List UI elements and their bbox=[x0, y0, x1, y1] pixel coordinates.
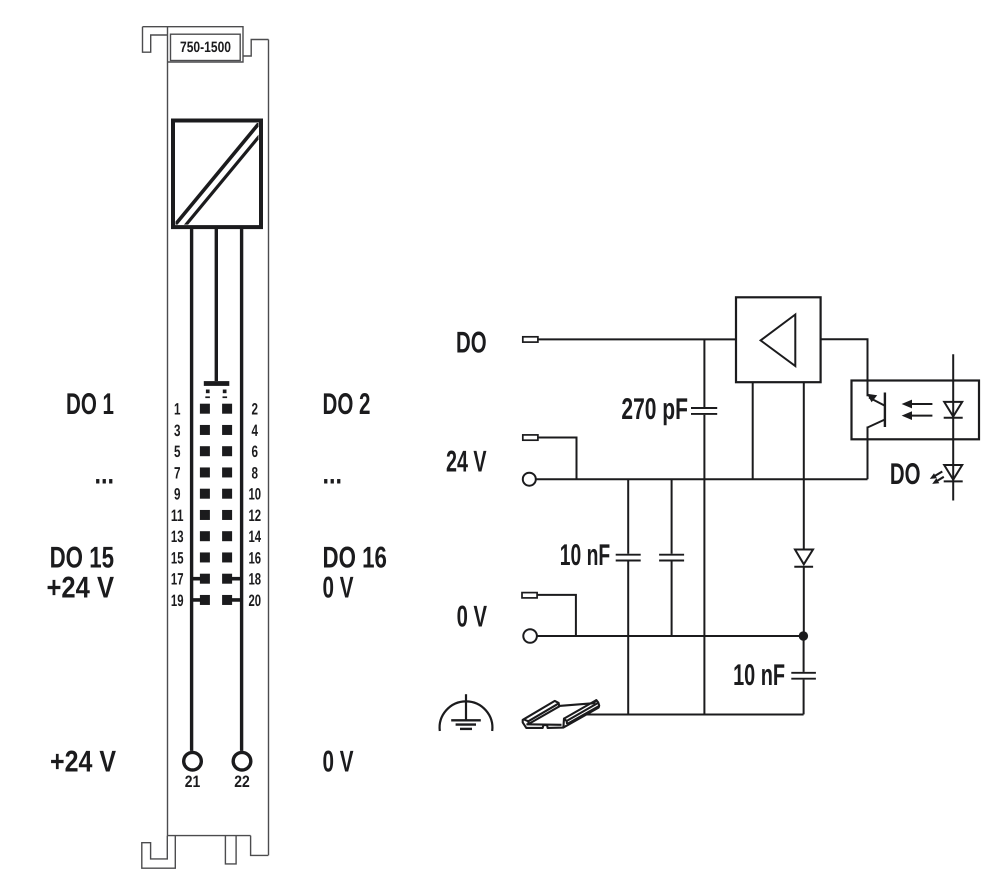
terminal circle 21 bbox=[184, 752, 202, 770]
svg-text:DO 2: DO 2 bbox=[323, 388, 371, 421]
svg-text:DO 16: DO 16 bbox=[323, 542, 387, 575]
svg-text:7: 7 bbox=[174, 464, 181, 482]
svg-text:17: 17 bbox=[171, 571, 184, 589]
svg-text:14: 14 bbox=[249, 528, 262, 546]
optocoupler U2 box bbox=[852, 381, 980, 440]
svg-text:...: ... bbox=[323, 457, 343, 490]
svg-text:10: 10 bbox=[249, 486, 262, 504]
svg-text:DO: DO bbox=[890, 458, 921, 491]
bus wire left (to terminal 21) bbox=[190, 227, 193, 751]
svg-text:16: 16 bbox=[249, 549, 262, 567]
svg-text:5: 5 bbox=[174, 443, 181, 461]
node 0V terminal marker bbox=[522, 593, 537, 598]
node 0V terminal circle bbox=[523, 629, 537, 643]
wire ground rail bbox=[585, 714, 804, 716]
wire 24V marker to rail bbox=[538, 438, 577, 480]
DC converter symbol bbox=[173, 121, 263, 228]
svg-text:19: 19 bbox=[171, 592, 184, 610]
wire amp right stub to diode bbox=[803, 382, 805, 549]
svg-text:...: ... bbox=[95, 457, 115, 490]
svg-text:13: 13 bbox=[171, 528, 184, 546]
svg-text:10 nF: 10 nF bbox=[733, 659, 785, 692]
svg-text:22: 22 bbox=[234, 773, 250, 791]
LED D2 inside optocoupler bbox=[944, 402, 963, 418]
ground earth symbol bbox=[440, 694, 493, 731]
MODULE-GROUP bbox=[47, 27, 387, 869]
wire amp output to optocoupler bbox=[821, 339, 868, 396]
bus wire right (to terminal 22) bbox=[240, 227, 243, 751]
wire opto LED vertical bbox=[952, 354, 954, 500]
svg-text:0 V: 0 V bbox=[323, 571, 354, 604]
svg-text:4: 4 bbox=[252, 422, 259, 440]
svg-text:20: 20 bbox=[249, 592, 262, 610]
pin contact squares rows 1-20 bbox=[200, 404, 232, 605]
op-amp U1 buffer box bbox=[736, 297, 821, 382]
capacitor C1 270 pF bbox=[691, 339, 717, 714]
svg-text:+24 V: +24 V bbox=[47, 571, 115, 604]
SCHEMATIC-GROUP bbox=[440, 297, 979, 731]
light arrows into phototransistor bbox=[902, 400, 933, 420]
module body outline bbox=[142, 27, 269, 869]
svg-text:1: 1 bbox=[174, 401, 181, 419]
bus termination T-bar bbox=[204, 381, 230, 386]
svg-text:DO 1: DO 1 bbox=[66, 388, 114, 421]
svg-text:DO 15: DO 15 bbox=[50, 542, 114, 575]
wire DO horizontal bbox=[538, 338, 736, 340]
node junction dot bbox=[799, 631, 808, 640]
node 24V terminal circle bbox=[523, 473, 536, 486]
diode D1 bbox=[794, 550, 813, 637]
svg-text:2: 2 bbox=[252, 401, 259, 419]
svg-text:24 V: 24 V bbox=[446, 446, 487, 479]
svg-text:10 nF: 10 nF bbox=[560, 539, 610, 572]
svg-text:750-1500: 750-1500 bbox=[180, 39, 231, 56]
continuation marks bbox=[205, 390, 227, 399]
wire amp left stub to 24V rail bbox=[752, 382, 754, 479]
svg-text:9: 9 bbox=[174, 486, 181, 504]
svg-text:12: 12 bbox=[249, 507, 262, 525]
LED light emission arrows bbox=[930, 472, 944, 484]
svg-text:8: 8 bbox=[252, 464, 259, 482]
svg-text:3: 3 bbox=[174, 422, 181, 440]
wire 0V marker to rail bbox=[537, 595, 576, 636]
svg-text:270 pF: 270 pF bbox=[621, 393, 688, 426]
DIN rail symbol bbox=[523, 700, 600, 728]
wire 24V rail bbox=[536, 478, 868, 480]
svg-text:21: 21 bbox=[185, 773, 201, 791]
capacitor C2 10 nF bbox=[616, 479, 641, 714]
bus wire middle bbox=[215, 227, 218, 381]
capacitor C3 10 nF bbox=[659, 479, 684, 636]
pin stubs 17-20 bbox=[192, 577, 242, 602]
svg-text:6: 6 bbox=[252, 443, 259, 461]
LED D3 DO status bbox=[944, 465, 963, 481]
svg-text:DO: DO bbox=[456, 327, 487, 360]
op-amp U1 triangle bbox=[761, 315, 796, 367]
terminal circle 22 bbox=[233, 752, 251, 770]
node DO terminal marker bbox=[523, 337, 538, 342]
svg-text:+24 V: +24 V bbox=[50, 746, 116, 779]
capacitor C4 10 nF bbox=[791, 636, 816, 714]
svg-text:18: 18 bbox=[249, 571, 262, 589]
svg-text:0 V: 0 V bbox=[323, 746, 354, 779]
svg-text:15: 15 bbox=[171, 549, 184, 567]
transistor Q1 phototransistor bbox=[867, 381, 885, 480]
pin numbers bbox=[171, 401, 262, 610]
svg-text:11: 11 bbox=[171, 507, 184, 525]
node 24V terminal marker bbox=[523, 435, 538, 440]
wire 0V rail bbox=[537, 635, 804, 637]
svg-text:0 V: 0 V bbox=[457, 600, 487, 633]
